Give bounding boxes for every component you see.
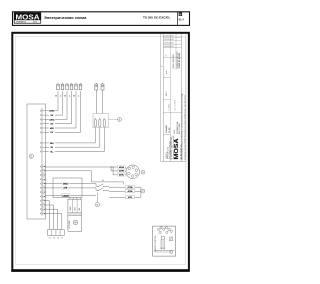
svg-text:USB/B: USB/B <box>62 195 69 197</box>
svg-text:UFF. TECNICO DISEGNO: UFF. TECNICO DISEGNO <box>169 141 171 159</box>
svg-text:M: M <box>179 13 181 16</box>
svg-text:42VA: 42VA <box>119 166 124 169</box>
svg-text:24Va: 24Va <box>49 118 55 121</box>
svg-text:M: M <box>74 222 76 225</box>
svg-text:1 03.06.03: 1 03.06.03 <box>164 46 171 48</box>
svg-text:42VC: 42VC <box>119 174 125 177</box>
svg-text:4 14.01.05: 4 14.01.05 <box>164 36 171 38</box>
svg-text:48V: 48V <box>79 208 81 211</box>
svg-text:2 10.02.04: 2 10.02.04 <box>164 43 171 45</box>
svg-text:WTB: WTB <box>63 183 68 185</box>
svg-text:G: G <box>30 154 32 158</box>
svg-text:42VB: 42VB <box>119 170 125 173</box>
svg-text:E: E <box>104 118 105 120</box>
svg-text:scala: scala <box>166 70 168 74</box>
svg-text:47VA: 47VA <box>128 190 133 193</box>
svg-text:REV.4: REV.4 <box>174 130 176 134</box>
svg-text:E: E <box>99 118 100 120</box>
svg-text:TS 200 SC-EXC/EL: TS 200 SC-EXC/EL <box>143 16 170 20</box>
svg-text:SETS: SETS <box>33 22 37 24</box>
svg-text:Tel. 02/903521 - Fax 02/903904: Tel. 02/903521 - Fax 02/90390466 <box>171 136 173 159</box>
svg-text:SC-EXC/EL: SC-EXC/EL <box>166 124 168 133</box>
svg-text:47VB: 47VB <box>127 186 133 189</box>
svg-text:L1: L1 <box>49 238 51 240</box>
svg-text:E: E <box>95 118 96 120</box>
svg-text:DES. 2719050: DES. 2719050 <box>179 124 181 134</box>
svg-text:MOSA: MOSA <box>16 12 40 21</box>
svg-text:TS 200 SC-EXC/EL: TS 200 SC-EXC/EL <box>179 52 181 69</box>
svg-text:ATB: ATB <box>63 187 68 190</box>
svg-text:24V: 24V <box>50 142 54 145</box>
svg-text:REMOTE CONTROL: REMOTE CONTROL <box>155 235 157 252</box>
svg-text:M: M <box>96 205 98 207</box>
svg-text:24Vb: 24Vb <box>49 110 55 113</box>
svg-text:Электрическая схема: Электрическая схема <box>44 15 87 20</box>
svg-text:c.s. 0504: c.s. 0504 <box>169 104 171 110</box>
svg-text:61.4: 61.4 <box>179 19 184 22</box>
svg-text:cod. 271905030: cod. 271905030 <box>175 100 177 111</box>
svg-text:L3: L3 <box>57 238 59 240</box>
svg-text:3 22.09.04: 3 22.09.04 <box>164 39 171 41</box>
svg-text:48V: 48V <box>50 127 54 130</box>
svg-text:L2: L2 <box>53 238 55 240</box>
svg-text:M61.4: M61.4 <box>166 91 168 96</box>
svg-text:47B: 47B <box>128 196 132 199</box>
svg-text:TS 200: TS 200 <box>169 127 171 133</box>
